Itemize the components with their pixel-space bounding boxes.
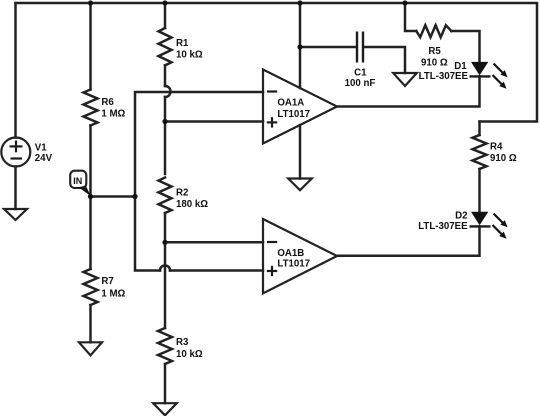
svg-text:910 Ω: 910 Ω	[490, 153, 517, 164]
svg-text:LT1017: LT1017	[277, 259, 310, 270]
svg-text:LTL-307EE: LTL-307EE	[418, 221, 468, 232]
svg-text:1 MΩ: 1 MΩ	[101, 109, 125, 120]
svg-text:V1: V1	[35, 143, 47, 154]
svg-text:C1: C1	[354, 67, 367, 78]
svg-text:10 kΩ: 10 kΩ	[176, 349, 203, 360]
svg-text:R1: R1	[176, 38, 189, 49]
svg-text:R6: R6	[101, 97, 114, 108]
svg-text:1 MΩ: 1 MΩ	[101, 289, 125, 300]
svg-text:100 nF: 100 nF	[345, 78, 376, 89]
svg-text:R3: R3	[176, 337, 189, 348]
svg-text:LTL-307EE: LTL-307EE	[419, 71, 469, 82]
svg-text:OA1A: OA1A	[277, 98, 304, 109]
svg-text:LT1017: LT1017	[277, 109, 310, 120]
svg-text:OA1B: OA1B	[277, 248, 304, 259]
svg-text:IN: IN	[73, 176, 82, 186]
svg-text:R4: R4	[490, 142, 503, 153]
svg-text:R2: R2	[176, 188, 188, 199]
svg-text:R7: R7	[101, 276, 113, 287]
svg-text:180 kΩ: 180 kΩ	[176, 199, 208, 210]
svg-text:910 Ω: 910 Ω	[421, 57, 448, 68]
svg-text:10 kΩ: 10 kΩ	[176, 49, 203, 60]
svg-text:R5: R5	[428, 46, 441, 57]
svg-text:24V: 24V	[35, 153, 53, 164]
